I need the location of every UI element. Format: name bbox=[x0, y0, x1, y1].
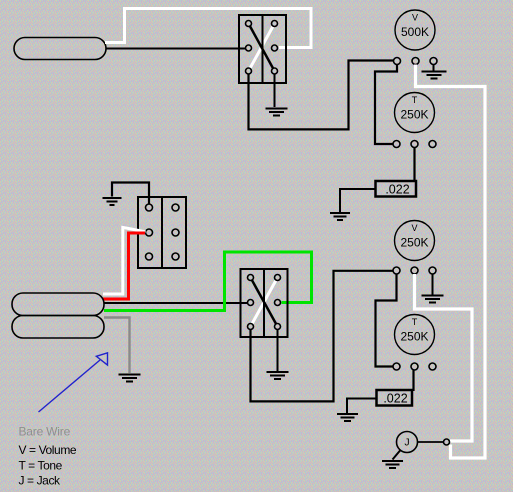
bare wire callout arrow bbox=[39, 353, 108, 412]
pot V2 terminals bbox=[393, 267, 436, 274]
wire switch S2 bottom-right pin to ground bbox=[277, 330, 279, 371]
pickup P2 (bridge humbucker coil 1) bbox=[12, 293, 104, 316]
svg-text:V = Volume: V = Volume bbox=[19, 443, 77, 457]
svg-text:V: V bbox=[412, 13, 418, 23]
wire pot V1 left terminal to pot T1 left terminal bbox=[375, 65, 397, 145]
switch S2 black crossover contact bbox=[251, 278, 278, 327]
switch S1 divider bbox=[262, 15, 264, 83]
pot T1 (Tone 250K) bbox=[395, 93, 435, 133]
svg-text:250K: 250K bbox=[400, 108, 428, 122]
wire jack J1 to hot terminal bbox=[418, 441, 444, 443]
wire pot V2 right terminal to ground bbox=[432, 274, 434, 295]
wire red pickup P2 to terminal strip TS1 middle-left pin bbox=[103, 233, 145, 299]
wire white pickup P2 to terminal strip TS1 middle-left pin bbox=[103, 227, 146, 294]
wire capacitor C1 to ground bbox=[340, 189, 376, 212]
jack J1 bbox=[397, 432, 418, 453]
switch S2 (3-way slide switch) bbox=[241, 269, 288, 337]
capacitor C2 (.022) bbox=[377, 390, 413, 406]
svg-text:250K: 250K bbox=[400, 330, 428, 344]
switch S2 pins bbox=[248, 275, 281, 330]
svg-text:.022: .022 bbox=[383, 392, 407, 406]
ground (below capacitor C1) bbox=[330, 213, 350, 220]
pickup P1 (neck single coil) bbox=[14, 38, 106, 60]
capacitor C1 (.022) bbox=[376, 181, 417, 197]
wire gray (bare wire) pickup P3 to ground bbox=[104, 318, 130, 374]
wire pot V2 left terminal to pot T2 left terminal bbox=[376, 274, 397, 367]
pot T2 terminals bbox=[393, 363, 436, 370]
ground (left of terminal strip TS1) bbox=[103, 198, 122, 205]
switch S1 black crossover contact bbox=[249, 24, 275, 72]
ground (below capacitor C2) bbox=[337, 414, 358, 421]
wire terminal strip TS1 top-left pin to ground bbox=[112, 183, 149, 208]
terminal strip TS1 bbox=[138, 197, 186, 268]
svg-text:T = Tone: T = Tone bbox=[19, 459, 63, 473]
pot V2 (Volume 250K) bbox=[395, 221, 435, 261]
switch S2 divider bbox=[263, 269, 265, 337]
wire pot T2 middle terminal to capacitor C2 bbox=[412, 370, 414, 391]
ground (right of pot V1) bbox=[422, 72, 447, 79]
wire switch S1 bottom-right pin to ground bbox=[274, 74, 276, 107]
wire pot T1 middle terminal to capacitor C1 bbox=[413, 148, 415, 182]
wire switch S1 bottom-left pin to pot V1 left terminal bbox=[249, 61, 394, 130]
switch S1 pins bbox=[246, 21, 278, 75]
svg-text:.022: .022 bbox=[385, 183, 409, 197]
pot V1 (Volume 500K) bbox=[395, 10, 435, 50]
wire green pickup P2 to switch S2 middle-right pin bbox=[104, 252, 312, 311]
ground (below jack J1) bbox=[382, 461, 403, 468]
ground (below switch S1) bbox=[266, 109, 288, 116]
jack hot terminal bbox=[444, 439, 450, 445]
ground (below switch S2) bbox=[267, 372, 289, 379]
pot V1 terminals bbox=[394, 58, 438, 65]
switch S2 white crossover contact bbox=[251, 278, 278, 327]
svg-text:250K: 250K bbox=[400, 236, 428, 250]
terminal strip TS1 pins bbox=[146, 204, 180, 260]
ground (bare wire) bbox=[119, 375, 141, 382]
wire black pickup P2 to switch S2 middle-left pin bbox=[104, 302, 247, 304]
wire capacitor C2 to ground bbox=[347, 399, 376, 414]
svg-text:J: J bbox=[404, 437, 409, 449]
switch S1 white crossover contact bbox=[249, 24, 275, 72]
pickup P3 (bridge humbucker coil 2) bbox=[12, 316, 104, 339]
svg-text:500K: 500K bbox=[401, 25, 429, 39]
wire pot V1 right terminal to ground bbox=[433, 65, 435, 71]
wire white pot V1 middle terminal to jack terminal (hot) bbox=[416, 65, 486, 459]
svg-text:J = Jack: J = Jack bbox=[19, 474, 62, 488]
svg-text:T: T bbox=[412, 95, 418, 105]
svg-text:T: T bbox=[412, 317, 418, 327]
pot T1 terminals bbox=[393, 141, 436, 148]
pot T2 (Tone 250K) bbox=[395, 315, 435, 355]
wire white P1 to switch S1 middle-right pin bbox=[105, 9, 311, 48]
switch S1 (3-way slide switch) bbox=[239, 15, 286, 83]
svg-text:V: V bbox=[411, 223, 417, 233]
wire switch S2 bottom-left pin to pot V2 left terminal bbox=[251, 271, 394, 402]
wire jack J1 sleeve to ground bbox=[393, 450, 401, 460]
wire black P1 to switch S1 middle-left pin bbox=[106, 48, 246, 50]
ground (right of pot V2) bbox=[422, 296, 444, 303]
wire white pot V2 middle terminal to jack terminal (hot) bbox=[415, 274, 473, 441]
svg-text:Bare Wire: Bare Wire bbox=[19, 425, 71, 439]
